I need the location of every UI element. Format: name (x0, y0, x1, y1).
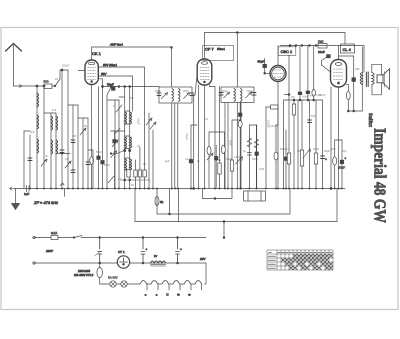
node A (61, 69, 63, 71)
svg-text:CBC 1: CBC 1 (281, 49, 294, 54)
svg-text:150: 150 (331, 147, 336, 151)
svg-text:8A 60V: 8A 60V (108, 276, 118, 280)
svg-text:85V 25mA: 85V 25mA (103, 63, 117, 67)
wire tie y97 osc (119, 96, 124, 98)
svg-text:100: 100 (129, 96, 134, 100)
svg-text:Dr: Dr (154, 254, 157, 258)
capacitor on x73 (71, 140, 75, 143)
svg-text:(CrO): (CrO) (319, 93, 326, 97)
label HT rail ticks (289, 45, 317, 47)
wire tie y120 (232, 119, 241, 121)
trimmer osc x115 (112, 140, 118, 147)
capacitor col x309.5 (308, 100, 312, 189)
fuse 0,1A (51, 231, 58, 240)
wire HT rail right (280, 46, 364, 73)
svg-text:0,2: 0,2 (118, 177, 122, 181)
svg-text:0,1A: 0,1A (51, 231, 57, 235)
capacitor col x190 (189, 125, 197, 189)
svg-text:2M: 2M (291, 95, 295, 99)
resistor col x294 (292, 100, 295, 189)
resistor 500 (antenna series) (44, 80, 53, 89)
wire tie y100 full (284, 99, 323, 101)
svg-text:4nF: 4nF (310, 94, 315, 98)
wire CK1 cathode (90, 85, 94, 189)
resistor col x316 (314, 100, 317, 189)
inductor L2 column (51, 113, 53, 189)
resistor zigzag x249.4 (247, 125, 251, 189)
capacitor 50pF grid (258, 59, 272, 75)
wire speaker return tie (347, 110, 362, 112)
svg-text:50nF: 50nF (229, 140, 233, 146)
wire CL4 grid return (330, 87, 332, 190)
oscillator coil stack (124, 86, 132, 189)
capacitor col x102.5 (101, 79, 104, 189)
wire CBC1 top (277, 46, 279, 66)
svg-text:125–230V CY1 B: 125–230V CY1 B (74, 274, 94, 277)
svg-text:6k: 6k (160, 200, 164, 204)
wire col x153 (152, 130, 154, 189)
wire CF7 fan right (210, 85, 216, 189)
wire antenna lead with arrow (14, 85, 45, 88)
tube CL4 (331, 60, 347, 88)
svg-text:220V: 220V (45, 249, 54, 253)
switch antenna band (52, 79, 60, 87)
svg-text:30pF: 30pF (222, 89, 228, 93)
capacitor col x98.5 (97, 87, 100, 189)
wire col x193.7 (193, 95, 195, 190)
ground (12, 189, 20, 210)
wire col x115 (114, 100, 116, 189)
svg-text:CF 7: CF 7 (205, 47, 214, 52)
wire screen line (98, 79, 159, 88)
potentiometer col x302 (300, 100, 310, 189)
svg-text:25µF: 25µF (338, 166, 345, 170)
wire col x283.5 (283, 100, 285, 189)
capacitor x73 lower (71, 170, 75, 173)
capacitor elco x322.5 (321, 100, 328, 189)
capacitor 6uF (95, 238, 102, 264)
wire secondary loop (372, 64, 382, 95)
wire col x257 (255, 125, 258, 189)
inductor L1 column (37, 86, 39, 189)
svg-text:0,1: 0,1 (143, 162, 147, 166)
switch mid x111 (108, 176, 114, 183)
tube CF7 (197, 59, 212, 85)
inductor L3 column (56, 113, 58, 189)
wire anode to transformer (339, 47, 363, 111)
potentiometer arrow x239 (236, 157, 243, 165)
resistor col x289 (284, 55, 290, 189)
svg-text:30pF: 30pF (247, 89, 253, 93)
wire IF1 secondary down (172, 103, 178, 189)
wire mains bottom rail (34, 262, 206, 264)
resistor col x219.5 (218, 87, 221, 189)
svg-text:1M: 1M (297, 149, 301, 153)
wire bias line 3 (135, 189, 337, 222)
resistor bias (155, 197, 164, 206)
svg-text:25µ: 25µ (342, 149, 347, 153)
resistor R osc3 (138, 147, 141, 189)
resistor HT series (318, 40, 327, 49)
lamp 2 (121, 281, 127, 287)
choke Dr (151, 254, 166, 266)
label mains block (74, 270, 94, 277)
resistor field coil return (346, 85, 350, 112)
svg-text:5nF: 5nF (311, 114, 316, 118)
trimmer T1 (41, 86, 47, 189)
svg-text:500: 500 (44, 80, 49, 84)
wire lamp link (116, 283, 140, 285)
switch wiper on bus (61, 183, 65, 186)
svg-text:+: + (146, 247, 148, 251)
wire tie y118 (78, 117, 88, 119)
wire mains line 1 (34, 236, 206, 239)
wire tie y113 (44, 112, 56, 114)
wire col x88 (87, 118, 89, 189)
node y86 (36, 85, 45, 87)
node dots bus extras (190, 188, 287, 190)
wire IF2 primary top (236, 33, 238, 88)
label CBC1 (278, 47, 296, 56)
box bias network (244, 191, 266, 201)
wire bus terminal arrow (10, 187, 15, 190)
switch col x119 (116, 100, 122, 189)
dropper resistor coil (140, 281, 202, 285)
capacitor blob x240 (238, 103, 242, 189)
wire stub below bus (64, 189, 66, 197)
svg-text:Imperial 48 GW: Imperial 48 GW (371, 128, 390, 223)
wire AVC line (202, 189, 232, 200)
wire CK1 top (91, 47, 93, 60)
transformer primary (360, 73, 362, 85)
capacitor 4nF col (306, 46, 310, 101)
node rail1 (171, 47, 173, 49)
svg-text:CY 1: CY 1 (118, 250, 125, 254)
antenna (6, 44, 22, 87)
svg-text:50nF: 50nF (96, 150, 102, 154)
wire CL4 cathode (338, 87, 340, 189)
resistor 0,3M col (312, 46, 316, 101)
svg-text:100: 100 (72, 134, 77, 138)
wire col x276 (274, 125, 278, 189)
svg-text:50pF: 50pF (258, 60, 265, 64)
wire CF7 cathode (204, 85, 206, 189)
mains terminals (33, 236, 35, 264)
wire CF7 fan left (198, 85, 200, 189)
svg-text:4µ: 4µ (243, 149, 246, 153)
svg-text:10nF: 10nF (318, 50, 325, 54)
trimmer col x83 (80, 118, 86, 189)
wire rail 55V (99, 76, 133, 111)
IF transformer 1 (157, 87, 194, 103)
svg-text:30pF: 30pF (155, 89, 161, 93)
svg-text:1nF: 1nF (24, 192, 29, 196)
svg-text:110V+10%: 110V+10% (78, 270, 91, 273)
svg-text:346: 346 (355, 67, 360, 71)
svg-text:50nF: 50nF (104, 163, 110, 167)
wire CF7 grid (192, 73, 197, 95)
svg-text:55mA: 55mA (217, 47, 225, 51)
wire tie y105 (68, 104, 78, 106)
wire top rail T1 (anode CK1) (92, 47, 172, 87)
svg-text:+: + (325, 157, 327, 161)
transformer secondary (372, 73, 374, 85)
capacitor 10nF grid CL4 (318, 50, 330, 65)
svg-text:10nF: 10nF (252, 157, 258, 161)
svg-text:0,25: 0,25 (259, 167, 265, 171)
wire heater branch (121, 179, 151, 181)
svg-text:Staßfurt: Staßfurt (367, 113, 374, 127)
capacitor elco x286 (284, 130, 287, 189)
IF transformer 2 (219, 87, 256, 103)
label CL4 box (341, 44, 355, 53)
svg-text:0,1µF: 0,1µF (137, 118, 141, 125)
capacitor 40nF col (298, 46, 302, 101)
capacitor C in1 (28, 158, 32, 161)
wire tie y125 (249, 124, 256, 126)
svg-text:ZF = 473 kHz: ZF = 473 kHz (33, 200, 58, 205)
value labels (30, 64, 360, 188)
table (267, 250, 333, 270)
wire IF2 secondary down (236, 103, 238, 189)
wire tie y140 (335, 139, 342, 141)
bus junction dots (29, 188, 343, 190)
svg-text:30pF: 30pF (183, 89, 189, 93)
table header text (268, 253, 332, 269)
switch col x210 (207, 153, 213, 160)
wire osc tie y131 (111, 129, 125, 134)
capacitor 8uF first (141, 238, 148, 264)
wire tie y153 left (58, 153, 70, 155)
svg-text:25V: 25V (199, 257, 206, 261)
resistor R osc2 (134, 160, 137, 189)
wire bias line 2 (157, 189, 290, 215)
svg-text:CrO: CrO (318, 40, 324, 44)
wire tie y132 (209, 132, 225, 189)
resistor oval x223 (221, 146, 225, 154)
resistor col x232 (230, 120, 233, 189)
trimmer col x153 (150, 122, 156, 129)
wire CK1 grid stub (78, 70, 85, 72)
capacitor anode bypass (352, 56, 356, 111)
svg-text:0,1µF: 0,1µF (185, 157, 192, 161)
svg-text:0,5MΩ: 0,5MΩ (267, 120, 271, 128)
svg-text:4µF: 4µF (165, 159, 170, 163)
switch osc (146, 113, 152, 189)
capacitor blob x114.5 (113, 131, 116, 189)
wire col x228 (227, 103, 229, 189)
svg-text:5nF: 5nF (30, 130, 35, 134)
wire col x241 (240, 103, 242, 189)
svg-text:50nF: 50nF (107, 83, 114, 87)
resistor CL4 cathode (333, 140, 337, 189)
node rail2 (236, 32, 238, 34)
wire col x78 (77, 105, 79, 189)
wire to input coil node (60, 70, 68, 79)
tube CY1 (117, 256, 129, 268)
capacitor bus input 1nF (24, 186, 29, 197)
svg-text:0,5M: 0,5M (313, 147, 319, 151)
capacitor x88 lower (86, 162, 90, 165)
wire CBC1 cathode (277, 82, 279, 189)
svg-text:CL 4: CL 4 (343, 47, 352, 52)
wire input column 1 (29, 135, 31, 189)
switch col x107 (107, 87, 111, 189)
capacitor elco x341.5 (338, 140, 347, 189)
resistor zigzag x256.4 (254, 125, 258, 189)
svg-text:40nF: 40nF (303, 95, 309, 99)
tube CBC1 (270, 66, 286, 82)
svg-text:0,5M: 0,5M (234, 155, 240, 159)
svg-text:+: + (180, 247, 182, 251)
svg-text:+: + (345, 156, 347, 160)
svg-text:CK 1: CK 1 (92, 51, 102, 56)
capacitor 50nF blob (107, 83, 115, 91)
urdox ballast (97, 263, 110, 284)
svg-text:ANF 6mA: ANF 6mA (109, 43, 123, 47)
wire CL4 top (338, 46, 340, 60)
wire tie y100 (107, 99, 119, 101)
wire top rail T2 (CF7 anode) (205, 33, 346, 60)
transformer core (366, 72, 368, 87)
svg-text:200pF: 200pF (62, 64, 70, 68)
wire col x298 (297, 100, 299, 189)
svg-text:0,1µF: 0,1µF (270, 124, 277, 128)
wire rail 85V (99, 67, 145, 189)
wire dropper feed (179, 189, 225, 239)
wire col x73 (72, 105, 74, 189)
wire col x93 (88, 150, 93, 189)
svg-text:0,1µF: 0,1µF (185, 133, 189, 140)
label CF7 (203, 46, 234, 61)
resistor link 0,5M (266, 105, 278, 189)
ground bus (14, 188, 345, 190)
svg-text:0,3: 0,3 (286, 147, 290, 151)
tube CK1 (85, 60, 98, 85)
resistor R osc4 (143, 170, 146, 177)
wire tie y131 (24, 131, 30, 189)
lamp 1 (110, 281, 116, 287)
wire bias line 1 (156, 189, 158, 206)
node power (99, 237, 179, 264)
svg-text:0,1: 0,1 (205, 117, 209, 121)
trimmer col x68 (65, 70, 71, 189)
speaker (377, 69, 390, 90)
wire col x62 (61, 70, 63, 189)
wire CL4 grid (322, 65, 331, 72)
wire IF2 left cap down (224, 103, 226, 189)
capacitor blob x216 (215, 145, 218, 189)
trimmer arrow x113 (111, 151, 117, 158)
svg-text:50µF: 50µF (324, 149, 330, 153)
capacitor on x62 (60, 150, 64, 153)
capacitor 8uF second (176, 238, 183, 264)
svg-text:50nF: 50nF (226, 157, 232, 161)
svg-text:1nF: 1nF (52, 108, 57, 112)
wire dropper right (205, 263, 206, 284)
switch tie y153.5 (110, 151, 123, 154)
resistor oval x209 (207, 147, 211, 155)
dropper taps (143, 284, 201, 296)
resistor R osc1 (127, 170, 130, 178)
table X marks (282, 255, 333, 270)
